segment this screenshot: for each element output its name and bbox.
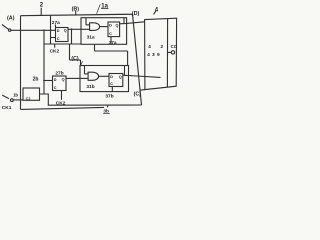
svg-text:31b: 31b <box>86 84 94 90</box>
wire gate 31b lower input <box>80 77 88 79</box>
wire gate 31a output <box>99 26 108 28</box>
svg-text:37b: 37b <box>105 93 113 99</box>
wire clock stub 37a <box>110 37 112 45</box>
label CK2 a <box>50 44 60 54</box>
svg-text:Q: Q <box>64 29 67 33</box>
wire gate 31b upper input <box>85 73 89 75</box>
wire Q of 37b to counter <box>123 75 161 77</box>
svg-text:D: D <box>54 78 57 82</box>
svg-text:(D): (D) <box>132 11 140 17</box>
switch SW-A <box>2 25 11 32</box>
wire clock feed to 37b <box>95 44 128 65</box>
wire Q of 27a <box>68 28 81 30</box>
wire CK2 line a <box>44 43 81 45</box>
svg-text:CK1: CK1 <box>2 105 12 111</box>
flip-flop 37a <box>108 22 120 37</box>
junction <box>43 29 45 31</box>
svg-text:D: D <box>109 24 112 28</box>
svg-text:C: C <box>110 82 113 86</box>
svg-text:Q: Q <box>116 23 119 27</box>
svg-text:Q: Q <box>119 75 122 79</box>
svg-text:1b: 1b <box>13 92 18 97</box>
junction <box>43 80 45 82</box>
flip-flop 27b <box>53 76 67 91</box>
svg-text:(C): (C) <box>134 91 141 97</box>
wire feedback drop a <box>85 18 87 25</box>
label 27a <box>52 20 60 27</box>
svg-text:D: D <box>110 75 113 79</box>
svg-text:C2: C2 <box>26 97 31 101</box>
svg-text:D: D <box>57 29 60 33</box>
wire feedback drop b <box>84 66 86 74</box>
label 3b <box>103 105 110 114</box>
wire vertical bus <box>43 30 45 94</box>
wire D input 27b <box>44 80 53 82</box>
label 2 <box>40 3 44 16</box>
flip-flop 37b <box>109 74 123 87</box>
wire CK1 output <box>40 94 142 105</box>
node (C) upper <box>71 56 82 68</box>
svg-text:439: 439 <box>147 52 162 57</box>
wire Q of 37a to counter <box>120 22 145 24</box>
svg-text:Q: Q <box>62 78 65 82</box>
svg-text:CO: CO <box>171 44 178 49</box>
svg-text:(A): (A) <box>7 15 15 21</box>
wire feedback rise b <box>124 66 126 76</box>
sub-block 1a box <box>81 18 127 45</box>
wire from CK2 line down to box 3b <box>70 44 81 66</box>
wire gate 31a upper input <box>86 24 90 26</box>
counter 4 box <box>140 18 177 90</box>
terminal CO <box>168 44 178 54</box>
wire switch A to FF 27a D input <box>11 29 56 31</box>
wire gate 31b output <box>98 75 109 77</box>
sub-block 3b box <box>80 66 129 92</box>
oscillator CK1 box <box>23 88 40 101</box>
svg-text:4: 4 <box>155 8 159 14</box>
node (B) <box>72 7 80 15</box>
wire down from junction <box>71 29 73 44</box>
wire gate 31a lower input <box>81 28 90 30</box>
label CK2 b <box>56 91 66 107</box>
svg-text:C: C <box>57 37 60 41</box>
svg-text:27b: 27b <box>55 71 63 77</box>
flip-flop 27a <box>56 28 69 42</box>
svg-text:(C): (C) <box>71 56 78 62</box>
svg-text:2b: 2b <box>33 76 39 82</box>
and-gate 31a <box>90 23 100 31</box>
label 4 <box>154 8 159 15</box>
wire Q of 27b <box>66 77 80 79</box>
svg-text:CK2: CK2 <box>50 48 60 54</box>
and-gate 31b <box>88 72 99 80</box>
net 1a <box>97 3 109 14</box>
svg-text:37a: 37a <box>109 40 117 46</box>
wire vertical from top edge <box>50 16 52 44</box>
svg-text:31a: 31a <box>87 34 95 40</box>
wire feedback rise a <box>123 18 125 24</box>
svg-text:C: C <box>109 32 112 36</box>
svg-text:C: C <box>54 86 57 90</box>
wire switch B to CK1 <box>13 99 23 101</box>
block 2 outer box <box>21 14 142 109</box>
wire clock into 27a <box>51 37 56 39</box>
svg-text:27a: 27a <box>52 20 60 26</box>
svg-text:4 2: 4 2 <box>148 44 167 49</box>
switch SW-B <box>2 95 13 101</box>
wire clock stub 37b <box>111 87 113 92</box>
junction <box>71 28 73 30</box>
